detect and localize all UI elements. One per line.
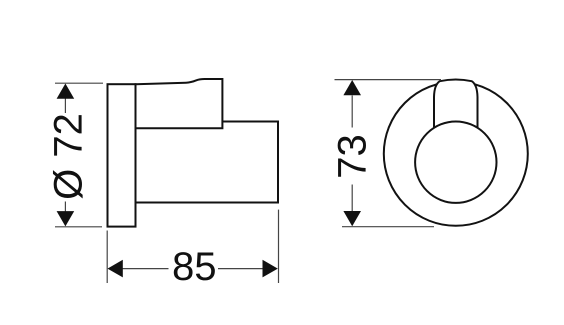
arrow left (85) <box>108 260 123 278</box>
extension line left (85) <box>106 231 108 284</box>
arrow up (dia 72) <box>57 84 75 99</box>
extension line bottom (73) <box>342 226 434 228</box>
clamp block (side view) <box>136 79 223 128</box>
clip dome (front view) <box>434 79 478 135</box>
label dia 72 <box>53 115 83 198</box>
holder inner circle (front view) <box>415 122 496 203</box>
dimension line 85 <box>123 268 169 270</box>
label 85 <box>174 252 215 280</box>
extension line top (dia 72) <box>55 82 103 84</box>
arrow down (73) <box>343 211 361 226</box>
arrow right (85) <box>263 260 278 278</box>
label 73 <box>338 136 366 177</box>
wall plate (side view) <box>108 84 136 226</box>
arrow down (dia 72) <box>57 211 75 226</box>
extension line right (85) <box>278 210 280 283</box>
holder outer circle (front view) <box>384 82 528 226</box>
arrow up (73) <box>343 80 361 95</box>
dimension line 73 <box>351 96 353 128</box>
extension line bottom (dia 72) <box>55 226 102 228</box>
extension line top (73) <box>335 79 442 81</box>
dimension line dia 72 <box>64 98 66 113</box>
holder body (side view) <box>136 122 279 203</box>
